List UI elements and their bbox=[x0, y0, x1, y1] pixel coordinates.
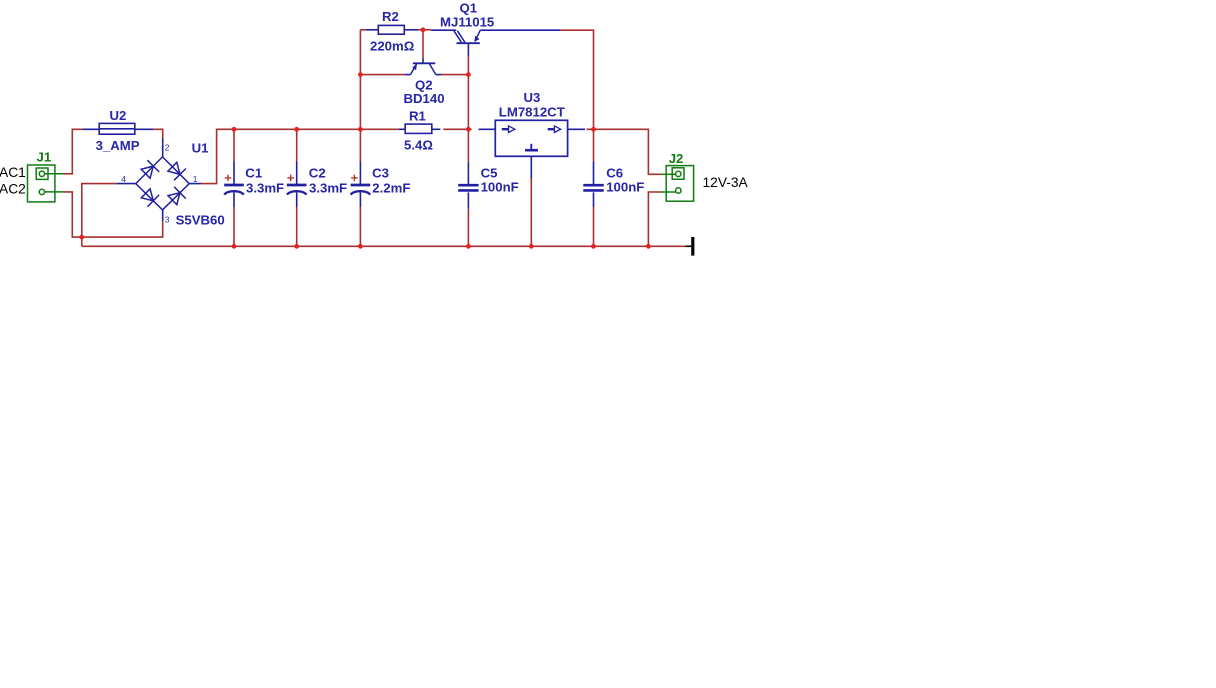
fuse U2 bbox=[99, 123, 135, 134]
pin R1 right bbox=[432, 128, 441, 130]
svg-text:C3: C3 bbox=[372, 165, 389, 180]
wire R2 right to node bbox=[418, 29, 432, 31]
pin C3 top lead bbox=[359, 161, 361, 184]
wire C3 branch red bottom bbox=[359, 207, 361, 246]
svg-text:C2: C2 bbox=[309, 165, 326, 180]
plus C2 bbox=[287, 175, 294, 182]
svg-text:AC1: AC1 bbox=[0, 165, 26, 180]
svg-text:3.3mF: 3.3mF bbox=[309, 180, 347, 195]
wire R1 right to node bbox=[443, 128, 471, 130]
wire Q1 collector riser down bbox=[467, 56, 469, 162]
wire C1 branch red bottom bbox=[233, 207, 235, 246]
capacitor C5 bbox=[458, 185, 478, 190]
plus C1 bbox=[225, 175, 232, 182]
wire R2 left bbox=[360, 29, 366, 31]
pin bridge 4 bbox=[117, 183, 136, 185]
pin Q2 collector wire bbox=[436, 74, 441, 76]
svg-text:MJ11015: MJ11015 bbox=[440, 14, 494, 29]
wire C2 branch red bottom bbox=[296, 207, 298, 246]
wire C1 branch red top bbox=[233, 129, 235, 161]
pin U3 input bbox=[479, 128, 496, 130]
bridge rectifier U1 diamond bbox=[136, 157, 189, 210]
connector J1 bbox=[28, 165, 64, 202]
pin U3 ground bbox=[530, 156, 532, 178]
pin U3 output bbox=[568, 128, 585, 130]
diode D top-left bbox=[141, 166, 153, 178]
svg-text:C6: C6 bbox=[606, 165, 623, 180]
pin Q1 emitter wire bbox=[480, 29, 560, 31]
wire U3 out to J2 riser bbox=[587, 129, 661, 174]
wire Q2 emitter to left riser bbox=[360, 74, 405, 76]
svg-text:C1: C1 bbox=[245, 165, 262, 180]
wire Q2 collector to right riser bbox=[441, 74, 468, 76]
pin fuse right bbox=[135, 128, 153, 130]
blue pin stubs bbox=[82, 30, 593, 222]
svg-text:3.3mF: 3.3mF bbox=[246, 180, 284, 195]
wire Q1 top right to C6 riser bbox=[560, 30, 594, 129]
pin bridge 3 bbox=[162, 210, 164, 221]
regulator U3 LM7812CT bbox=[495, 120, 567, 156]
wire C6 riser middle bbox=[593, 129, 595, 161]
wire fuse right to bridge pin2 bbox=[153, 129, 163, 138]
pin C1 bottom lead bbox=[233, 193, 235, 208]
svg-text:C5: C5 bbox=[481, 165, 498, 180]
resistor R1 bbox=[405, 124, 432, 133]
svg-text:12V-3A: 12V-3A bbox=[703, 175, 749, 190]
pin Q2 base bbox=[422, 58, 424, 63]
wire node to Q2 base bbox=[422, 30, 424, 58]
svg-text:4: 4 bbox=[121, 174, 126, 184]
svg-text:BD140: BD140 bbox=[404, 91, 445, 106]
wire bottom ground rail bbox=[82, 245, 686, 247]
wires group bbox=[64, 30, 686, 247]
diode D bottom-left bbox=[141, 189, 153, 201]
svg-text:100nF: 100nF bbox=[481, 180, 519, 195]
capacitor C2 bbox=[287, 185, 307, 195]
svg-text:3: 3 bbox=[165, 214, 170, 224]
diode D top-right bbox=[168, 162, 180, 174]
capacitor C3 bbox=[351, 185, 371, 195]
junction dots bbox=[79, 27, 650, 248]
pin C3 bottom lead bbox=[359, 193, 361, 208]
svg-text:S5VB60: S5VB60 bbox=[176, 213, 225, 228]
svg-text:1: 1 bbox=[193, 174, 198, 184]
pin R2 right bbox=[404, 29, 418, 31]
svg-text:R2: R2 bbox=[382, 9, 399, 24]
svg-text:2: 2 bbox=[165, 143, 170, 153]
pin C2 bottom lead bbox=[296, 193, 298, 208]
svg-text:U2: U2 bbox=[110, 108, 127, 123]
diode D bottom-right bbox=[168, 193, 180, 205]
terminal bar at rail end bbox=[686, 237, 693, 256]
wire R2/Q2/C3 left riser bbox=[359, 30, 361, 161]
svg-text:2.2mF: 2.2mF bbox=[372, 180, 410, 195]
svg-text:U3: U3 bbox=[524, 90, 541, 105]
svg-text:220mΩ: 220mΩ bbox=[370, 39, 415, 54]
pin fuse left bbox=[82, 128, 99, 130]
resistor R2 bbox=[378, 25, 404, 34]
wire J1 pin2 AC2 down and right to bridge pin3 bbox=[64, 192, 163, 237]
pin C5 top lead bbox=[467, 162, 469, 184]
svg-text:J1: J1 bbox=[37, 149, 52, 164]
pin bridge 2 bbox=[162, 139, 164, 157]
svg-text:3_AMP: 3_AMP bbox=[96, 138, 140, 153]
capacitor C6 bbox=[583, 185, 603, 190]
capacitor C1 bbox=[224, 185, 244, 195]
pin C2 top lead bbox=[296, 161, 298, 184]
plus C3 bbox=[351, 175, 358, 182]
pin Q1 base wire bbox=[432, 29, 457, 31]
pin R2 left bbox=[366, 29, 378, 31]
wire C5 branch red bottom bbox=[467, 209, 469, 247]
pin R1 left bbox=[399, 128, 405, 130]
wire J2 pin2 to ground rail bbox=[648, 192, 661, 246]
pin Q2 emitter wire bbox=[405, 74, 411, 76]
wire bridge pin4 to ground rail riser bbox=[82, 184, 117, 247]
transistor Q1 MJ11015 bbox=[454, 30, 480, 43]
connector J2 bbox=[661, 166, 694, 202]
wire C6 branch red bottom bbox=[593, 207, 595, 246]
wire J1 pin1 to fuse row riser bbox=[64, 129, 83, 174]
wire C2 branch red top bbox=[296, 129, 298, 161]
svg-text:U1: U1 bbox=[192, 141, 209, 156]
pin bridge 1 bbox=[189, 183, 201, 185]
svg-text:LM7812CT: LM7812CT bbox=[499, 104, 565, 119]
svg-text:5.4Ω: 5.4Ω bbox=[404, 137, 433, 152]
wire U3 ground pin red part bbox=[530, 179, 532, 247]
wire bridge pin1 up to main top rail bbox=[201, 129, 399, 183]
svg-text:R1: R1 bbox=[409, 109, 426, 124]
pin C6 top lead bbox=[593, 161, 595, 184]
pin C5 bottom lead bbox=[467, 192, 469, 208]
pin C6 bottom lead bbox=[593, 192, 595, 207]
svg-text:AC2: AC2 bbox=[0, 182, 26, 197]
transistor Q2 BD140 bbox=[411, 63, 436, 74]
pin C1 top lead bbox=[233, 161, 235, 184]
svg-text:100nF: 100nF bbox=[606, 180, 644, 195]
svg-text:J2: J2 bbox=[669, 151, 684, 166]
pin Q1 collector bbox=[467, 43, 469, 56]
